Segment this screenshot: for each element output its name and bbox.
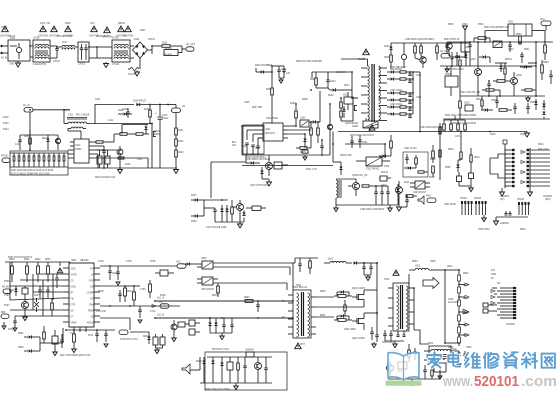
svg-text:VCC: VCC (176, 262, 181, 264)
wire BR up (439, 370, 441, 379)
svg-text:DIM: DIM (89, 305, 93, 307)
wire reg rails (203, 200, 205, 216)
bridge diode d (142, 52, 145, 55)
X-capacitor CX101 (55, 48, 58, 50)
diode D630 (187, 262, 190, 265)
LF101 bottom winding (35, 57, 49, 59)
resistor R214 (300, 147, 307, 150)
resistor R231 (414, 46, 417, 53)
resistor R133 (175, 150, 178, 157)
top rail BL (5, 261, 70, 263)
inductor L601 (330, 261, 346, 263)
zener ZD502 (542, 104, 545, 107)
braid v2 (42, 280, 44, 316)
wire LF101 to CX1 (30, 45, 33, 47)
svg-text:DB101: DB101 (118, 23, 126, 25)
wire row3 BL (10, 285, 63, 287)
PFC inductor T101 core (67, 117, 87, 119)
ground pin rail (495, 217, 497, 221)
resistor R204 (271, 88, 274, 95)
svg-text:R508: R508 (543, 62, 549, 64)
watermark char wang (542, 354, 555, 368)
watermark logo book fill (388, 353, 419, 380)
wire BC left (199, 357, 201, 370)
svg-text:D601: D601 (9, 290, 15, 292)
cap C633 (222, 324, 225, 326)
resistor R212 (310, 128, 313, 135)
resistor R125 (38, 156, 40, 161)
wire right rail PFC (175, 113, 177, 129)
zener ZD610 (208, 323, 211, 326)
resistor R601 (26, 266, 29, 274)
svg-text:R517: R517 (476, 99, 482, 101)
svg-text:VS: VS (90, 317, 94, 319)
svg-text:C109: C109 (122, 109, 128, 111)
svg-text:R511 R512 C508 D504 ZD504: R511 R512 C508 D504 ZD504 (445, 115, 477, 117)
T603 pins (424, 350, 431, 352)
cap C101 (18, 139, 21, 141)
wire row4 BL (33, 291, 63, 293)
svg-text:20N60: 20N60 (154, 134, 161, 136)
wire aux rail (312, 71, 352, 73)
svg-text:(24V): (24V) (545, 199, 551, 201)
res filter R305 (400, 113, 406, 115)
resistor R206 (315, 78, 318, 85)
resistor R213 (317, 128, 320, 135)
cap C632 (256, 304, 259, 306)
resistor R602 (37, 266, 40, 274)
svg-text:R217: R217 (344, 85, 350, 87)
svg-text:C204: C204 (330, 81, 336, 83)
resistor R111 (96, 141, 103, 143)
transistor Q410 (396, 187, 403, 194)
svg-text:D101: D101 (134, 39, 140, 41)
cap C226 (374, 191, 377, 193)
ground NTC (136, 71, 138, 73)
resistor R234 (459, 60, 461, 66)
diode D501 (464, 55, 467, 58)
wire ladder bottom (458, 343, 460, 346)
cap C227 (380, 191, 383, 193)
svg-text:CN: CN (497, 283, 501, 285)
ladder taps (459, 284, 465, 286)
ground BR (411, 379, 413, 382)
common-mode choke LF101 box (33, 40, 50, 62)
wire drive (288, 125, 296, 127)
wire sense row (288, 129, 311, 131)
T201 pin stubs right (379, 67, 387, 69)
wire IC bottom rail (66, 329, 115, 331)
wire IC right top (100, 265, 177, 267)
terminal DIM oval (1, 314, 9, 318)
main transformer T201 right winding a (379, 66, 381, 84)
zener ZD611 (214, 323, 217, 326)
diode D502 (524, 65, 527, 68)
resistor R514 (470, 155, 472, 162)
signal arrow (423, 278, 439, 289)
speaker SP1 (182, 364, 190, 374)
resistor R127 (48, 156, 50, 161)
svg-text:R100: R100 (65, 23, 71, 25)
svg-text:R115: R115 (125, 164, 131, 166)
T602 left winding (397, 286, 399, 330)
wire sec out (316, 296, 334, 298)
wire T602 right bus (413, 288, 415, 330)
wire row43 (391, 42, 470, 44)
watermark char jia (432, 352, 436, 354)
terminal CN1a (189, 320, 195, 326)
transistor Q205 (237, 204, 244, 211)
svg-text:R132: R132 (178, 141, 184, 143)
wire row1 BL (40, 273, 63, 275)
wire U201 fb (247, 129, 258, 131)
svg-text:R618: R618 (212, 295, 218, 297)
svg-text:CX102: CX102 (78, 64, 86, 66)
svg-text:C111: C111 (108, 120, 114, 122)
svg-text:ZD101: ZD101 (42, 138, 50, 140)
resistor R603 (47, 266, 50, 274)
cap filter C302 (408, 94, 411, 96)
resistor R128 (53, 156, 55, 161)
input diode D207 (195, 198, 198, 201)
wire U101 top pin (80, 131, 82, 139)
svg-text:12V: 12V (159, 302, 164, 304)
res R631 (338, 295, 346, 298)
svg-text:CY101 CY102: CY101 CY102 (57, 36, 72, 38)
bridge + output (148, 49, 153, 51)
svg-text:EN: EN (90, 287, 94, 289)
cap C616 (138, 309, 141, 311)
res box R610 (52, 336, 58, 344)
svg-text:24V_OUT: 24V_OUT (538, 149, 549, 151)
res bank R401 (450, 124, 453, 130)
sense resistor RS102 (105, 156, 110, 164)
svg-text:(5V): (5V) (500, 199, 505, 201)
svg-text:R420: R420 (430, 159, 436, 161)
wire row5 BL (10, 298, 63, 300)
pin header CP602 (475, 201, 477, 204)
svg-text:L601: L601 (328, 259, 334, 261)
big cap box C503 (445, 76, 458, 87)
opto U604 box (202, 277, 213, 285)
svg-text:GND: GND (9, 64, 14, 66)
svg-text:C640: C640 (448, 299, 454, 301)
cap C201 (277, 69, 280, 71)
svg-text:C709: C709 (140, 289, 146, 291)
wire LLC feed a (155, 300, 293, 302)
watermark char dian (448, 355, 458, 362)
watermark char wei (465, 353, 468, 357)
wire stub a (460, 42, 462, 52)
wire Q cluster top (245, 155, 247, 163)
fuse F101 (10, 45, 17, 47)
wire top snall (295, 257, 318, 259)
svg-text:R644: R644 (463, 325, 469, 327)
svg-text:L302: L302 (416, 97, 422, 99)
svg-text:F101: F101 (10, 38, 16, 40)
U201 pins left (258, 125, 263, 127)
hatched box shield (363, 121, 378, 128)
vertical rail prot (439, 123, 441, 180)
bottom rail reg (215, 221, 244, 223)
svg-text:R705: R705 (150, 261, 156, 263)
wire U101 vcc (93, 145, 104, 147)
diode D601 (14, 289, 17, 292)
resistor R404 (415, 158, 418, 164)
cap C221 (358, 139, 361, 141)
zener ZD620 (220, 363, 223, 366)
svg-text:D603: D603 (18, 347, 24, 349)
cap C645 (264, 367, 267, 369)
svg-text:PFC CHOKE: PFC CHOKE (76, 115, 90, 117)
svg-text:FB: FB (71, 299, 74, 301)
wire T602 top (408, 274, 410, 288)
bottom rail BC (200, 382, 272, 384)
resistor R120 (13, 156, 15, 161)
resistor R126 (43, 156, 45, 161)
svg-text:R103: R103 (3, 123, 9, 125)
U601 bottom pins (73, 327, 75, 332)
svg-text:C503: C503 (445, 74, 451, 76)
opto U202 box (300, 120, 309, 127)
svg-text:C205: C205 (244, 102, 250, 104)
svg-text:ZD501: ZD501 (505, 59, 513, 61)
svg-text:R208: R208 (302, 99, 308, 101)
svg-text:C509: C509 (491, 100, 497, 102)
gate resistor R112 (136, 133, 143, 136)
svg-text:GND1: GND1 (352, 126, 359, 128)
wire T101 left (63, 110, 65, 124)
transistor Q501 (475, 69, 482, 76)
rail y119 (443, 118, 550, 120)
wire pin rail (496, 216, 528, 218)
svg-text:D661: D661 (448, 347, 454, 349)
svg-text:D202: D202 (328, 95, 334, 97)
cap C207 (251, 144, 254, 146)
svg-text:Q502: Q502 (516, 75, 522, 77)
res R650 (408, 350, 411, 357)
cap C644 (243, 365, 246, 367)
diode D507 (483, 55, 486, 58)
svg-text:R641: R641 (463, 285, 469, 287)
wire Q201 em (329, 140, 331, 155)
svg-text:Q206 PFC_OK: Q206 PFC_OK (352, 175, 368, 177)
svg-text:CON601: CON601 (500, 196, 510, 198)
svg-text:D620: D620 (196, 361, 202, 363)
diode D620 (202, 361, 205, 364)
wire row2 BL (20, 279, 63, 281)
cap C635 (370, 331, 373, 333)
svg-text:R412: R412 (429, 177, 435, 179)
wire top bus PFC (33, 109, 70, 111)
res box R616 (160, 337, 165, 345)
wire Q101 source (151, 137, 153, 168)
main transformer T201 left winding (368, 66, 370, 119)
ground T602 (393, 344, 398, 348)
svg-text:PS-ON: PS-ON (2, 287, 10, 289)
svg-text:OTP: OTP (71, 305, 76, 307)
svg-text:ON/OFF: ON/OFF (8, 329, 17, 331)
svg-text:C530: C530 (462, 24, 468, 26)
diode D410 (383, 154, 386, 157)
rect diode D305 (391, 105, 394, 108)
divider line PFC box (10, 166, 68, 168)
svg-text:D705 R712 C712: D705 R712 C712 (120, 339, 138, 341)
resistor R230 (390, 55, 393, 62)
svg-text:LLC_B: LLC_B (157, 315, 164, 317)
cap C610 (60, 339, 63, 341)
cap C507 (526, 106, 529, 108)
ground Q601 (24, 315, 26, 317)
svg-text:CY103: CY103 (112, 64, 120, 66)
wire CX102 to LF102 (89, 46, 97, 48)
resistor R410 (390, 141, 393, 148)
resistor R501 (478, 37, 486, 40)
zener ZD503 (542, 112, 545, 115)
svg-text:R102: R102 (3, 117, 9, 119)
PFC IC U101 box (74, 139, 89, 163)
wire ladder top (445, 269, 459, 271)
connector CON602 body (529, 148, 531, 188)
resistor R611 (73, 334, 76, 342)
ground C630 (367, 275, 369, 277)
wire sw join (39, 337, 41, 351)
svg-text:CX101: CX101 (53, 61, 61, 63)
svg-text:NCP1271: NCP1271 (265, 133, 276, 135)
diode D612 (341, 314, 344, 317)
wire aux rail2 (336, 178, 356, 180)
svg-text:L602: L602 (415, 266, 421, 268)
rect diode D301 (391, 70, 394, 73)
main transformer T201 core (371, 64, 373, 122)
svg-text:R203 SNUBBER: R203 SNUBBER (255, 65, 273, 67)
wire BL rail to IC (69, 262, 71, 263)
LF102 core (114, 50, 128, 52)
svg-text:CNR640: CNR640 (245, 350, 255, 352)
wire U201 vcc top (271, 122, 273, 123)
svg-text:CON604: CON604 (506, 324, 516, 326)
svg-text:L301: L301 (416, 75, 422, 77)
svg-text:C710: C710 (150, 311, 156, 313)
cap C509 (495, 100, 498, 102)
wire Q201 col (329, 110, 331, 118)
diode D230 (389, 47, 392, 50)
resistor R503 (544, 45, 547, 53)
LF101 top winding (35, 44, 49, 46)
ground left edge (3, 322, 5, 326)
svg-text:VCC: VCC (540, 19, 545, 21)
cap C608 (46, 289, 49, 291)
svg-text:T501: T501 (508, 22, 514, 24)
svg-text:C471: C471 (455, 136, 461, 138)
cap C202 (282, 69, 285, 71)
svg-text:C211 2KV: C211 2KV (336, 72, 347, 74)
warning triangle W13 (65, 26, 72, 32)
cap filter C300 (408, 73, 411, 75)
res filter R303 (400, 99, 406, 101)
wire Q101 drain (95, 123, 152, 125)
cap C208 (256, 145, 259, 147)
warning triangle bus (369, 125, 375, 130)
res R651 (431, 370, 433, 376)
transistor Q601 (22, 302, 29, 309)
res bank R400 (443, 124, 446, 130)
left rail LLC (332, 132, 334, 163)
caps T602 left (383, 333, 386, 335)
svg-text:+B: +B (182, 106, 185, 108)
wire U101 pin4 (93, 153, 98, 155)
T201 top stub (367, 59, 369, 66)
aux transformer T202 box (366, 157, 382, 166)
wire row6 BL (10, 309, 63, 311)
svg-text:C707: C707 (4, 295, 10, 297)
resistor R618 (217, 286, 220, 293)
T603 windings (431, 349, 450, 351)
standby xfmr T501 box (508, 24, 532, 36)
svg-text:.com: .com (521, 373, 557, 390)
svg-text:R642: R642 (463, 298, 469, 300)
resistor R502 (519, 36, 522, 44)
wire Q503 up (460, 132, 462, 152)
rect diode D304 (391, 98, 394, 101)
ground T603 (458, 362, 460, 364)
wire sw to IC (48, 342, 63, 344)
res box R652 (227, 362, 233, 370)
CON601 left wires (490, 154, 505, 158)
svg-text:U201 PWM: U201 PWM (266, 118, 278, 120)
svg-text:D208: D208 (191, 221, 197, 223)
cap C504 (487, 83, 490, 85)
svg-text:C112: C112 (137, 159, 143, 161)
U101 pins right (89, 141, 93, 143)
wire row7 BL (15, 315, 63, 317)
svg-text:CON1: CON1 (1, 27, 8, 29)
svg-text:OC: OC (90, 299, 94, 301)
resistor R633 (344, 305, 346, 311)
terminal +B oval (168, 104, 176, 106)
wire opto out long b (213, 266, 290, 268)
wire U101 left pins (68, 149, 70, 151)
svg-text:F101 T4A: F101 T4A (40, 22, 51, 25)
svg-text:R530: R530 (448, 24, 454, 26)
svg-text:C221: C221 (362, 142, 368, 144)
CON604 terminals (483, 303, 488, 307)
thermistor NTC101 (130, 68, 139, 71)
svg-text:R552: R552 (520, 229, 526, 231)
PFC inductor T101 main winding (68, 122, 87, 124)
resistor R406 (432, 151, 435, 158)
svg-text:GND 5VSB: GND 5VSB (444, 204, 456, 206)
warning triangle W12 (51, 26, 58, 32)
oval VOUT (160, 304, 169, 308)
wire Q611 drain (363, 313, 365, 319)
resistor R129 (58, 156, 60, 161)
diode D231 (457, 55, 460, 58)
wire Q611 src (363, 323, 365, 330)
cap C602 (509, 213, 512, 215)
svg-text:VDD: VDD (71, 269, 76, 271)
svg-text:GND: GND (71, 287, 76, 289)
transistor Q604 (171, 324, 177, 330)
diode D611 (341, 290, 344, 293)
svg-text:LX: LX (91, 275, 94, 277)
svg-text:www.: www. (442, 373, 473, 390)
resistor R123 (28, 156, 30, 161)
svg-text:RT101: RT101 (148, 39, 156, 41)
T601 pins left (288, 294, 293, 296)
T601 pins right (311, 296, 316, 298)
warning triangle W11 (40, 26, 47, 32)
